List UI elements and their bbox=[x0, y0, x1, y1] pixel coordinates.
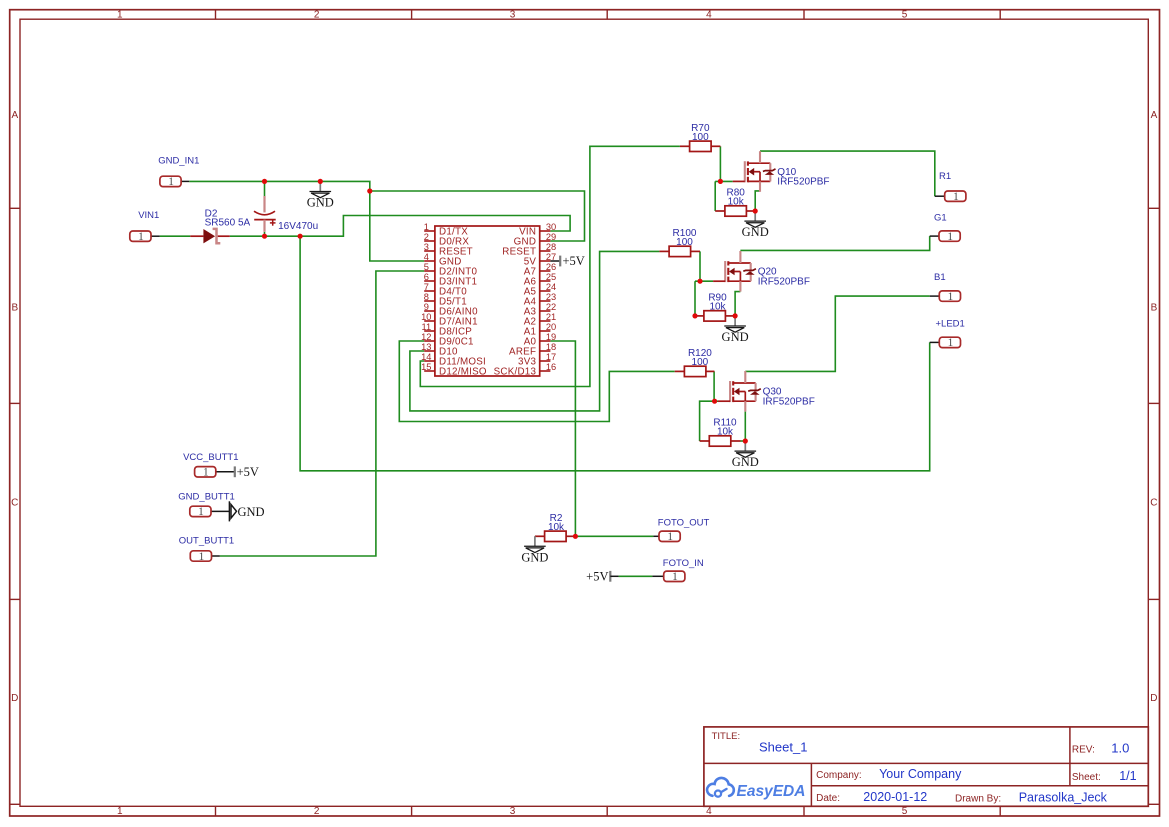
pin 7 D4/T0 bbox=[424, 290, 435, 292]
svg-text:VCC_BUTT1: VCC_BUTT1 bbox=[183, 452, 238, 463]
wire stub G1 port bbox=[930, 235, 939, 237]
junction R90 left node bbox=[692, 313, 697, 318]
title block texts bbox=[712, 731, 1137, 805]
svg-text:5: 5 bbox=[902, 806, 908, 817]
svg-text:Company:: Company: bbox=[816, 770, 862, 781]
wire Q20 gate node down to R90 bbox=[694, 281, 696, 316]
net port FOTO_IN bbox=[663, 558, 704, 583]
wire Q30 gate node down to R110 bbox=[700, 401, 715, 441]
pin 1 D1/TX bbox=[424, 230, 435, 232]
pin 17 3V3 bbox=[540, 360, 551, 362]
diode D2 (SR560 schottky) bbox=[190, 208, 250, 243]
svg-text:GND_BUTT1: GND_BUTT1 bbox=[178, 492, 234, 503]
pin 4 GND bbox=[424, 260, 435, 262]
svg-text:1: 1 bbox=[168, 176, 174, 188]
wire stub LED1 port bbox=[930, 341, 940, 343]
net port VCC_BUTT1 bbox=[183, 452, 238, 479]
net port VIN1 bbox=[130, 210, 160, 243]
svg-text:+5V: +5V bbox=[563, 254, 585, 268]
svg-text:C: C bbox=[11, 498, 18, 509]
svg-text:20: 20 bbox=[546, 322, 556, 332]
pin 18 AREF bbox=[540, 350, 551, 352]
wire capacitor top lead stub bbox=[264, 181, 266, 196]
svg-text:1: 1 bbox=[947, 231, 953, 243]
svg-text:1: 1 bbox=[948, 337, 954, 349]
wire Q20 drain to G1 bbox=[740, 236, 929, 250]
wire capacitor bottom lead stub bbox=[264, 232, 266, 236]
svg-text:2: 2 bbox=[314, 9, 320, 20]
pin 2 D0/RX bbox=[424, 240, 435, 242]
wire Q10 source to R80 right node bbox=[755, 191, 760, 211]
ground symbol GND Q30 bbox=[732, 441, 759, 469]
svg-text:16: 16 bbox=[546, 362, 556, 372]
svg-text:IRF520PBF: IRF520PBF bbox=[758, 276, 810, 287]
resistor R110 bbox=[700, 418, 741, 447]
svg-text:Your Company: Your Company bbox=[879, 767, 962, 781]
svg-text:OUT_BUTT1: OUT_BUTT1 bbox=[179, 535, 234, 546]
svg-text:3: 3 bbox=[510, 9, 516, 20]
pin 9 D6/AIN0 bbox=[424, 310, 435, 312]
wire IC pin13 to R100 bbox=[410, 251, 660, 411]
svg-text:1.0: 1.0 bbox=[1111, 741, 1129, 756]
junction Q20 gate node bbox=[697, 279, 702, 284]
wire stub VIN1 port bbox=[151, 235, 160, 237]
wire FOTO_IN +5V to port bbox=[619, 575, 653, 577]
svg-text:4: 4 bbox=[424, 252, 429, 262]
wire Q20 gate node to gate bbox=[695, 280, 713, 282]
ruler row letters left bbox=[11, 110, 18, 704]
svg-text:SR560 5A: SR560 5A bbox=[205, 218, 251, 229]
wire stub OUT_BUTT1 port bbox=[211, 555, 220, 557]
svg-text:Drawn By:: Drawn By: bbox=[955, 793, 1001, 804]
wire stub GND_BUTT1 to GND flag bbox=[211, 510, 230, 512]
svg-text:6: 6 bbox=[424, 272, 429, 282]
pin 23 A4 bbox=[540, 300, 551, 302]
ruler column numbers top bbox=[117, 9, 908, 20]
svg-text:100: 100 bbox=[676, 237, 693, 248]
wire GND branch to IC pin4 bbox=[370, 191, 424, 261]
svg-text:13: 13 bbox=[421, 342, 431, 352]
svg-text:11: 11 bbox=[421, 322, 431, 332]
svg-text:1: 1 bbox=[953, 191, 959, 203]
wire Q10 gate node down to R80 bbox=[714, 181, 716, 211]
svg-text:1/1: 1/1 bbox=[1119, 769, 1136, 783]
net port R1 bbox=[939, 171, 966, 203]
svg-text:1: 1 bbox=[138, 231, 144, 243]
svg-text:1: 1 bbox=[203, 467, 209, 479]
net port B1 bbox=[934, 272, 961, 303]
svg-text:A: A bbox=[11, 110, 18, 121]
pin 6 D3/INT1 bbox=[424, 280, 435, 282]
pin 20 A1 bbox=[540, 330, 551, 332]
wire IC pin19 A0 down to R2 node bbox=[550, 341, 575, 536]
svg-text:C: C bbox=[1150, 498, 1157, 509]
wire IC pin5 to OUT_BUTT1 bbox=[220, 271, 424, 556]
svg-text:D: D bbox=[1150, 693, 1157, 704]
pin 22 A3 bbox=[540, 310, 551, 312]
svg-text:19: 19 bbox=[546, 332, 556, 342]
ruler column numbers bottom bbox=[117, 806, 908, 817]
wire VIN1 to D2 anode bbox=[160, 235, 191, 237]
pin 10 D7/AIN1 bbox=[424, 320, 435, 322]
power flag +5V at FOTO_IN bbox=[586, 570, 618, 584]
svg-text:GND: GND bbox=[307, 196, 334, 210]
wire stub FOTO_IN port bbox=[652, 575, 663, 577]
pin 8 D5/T1 bbox=[424, 300, 435, 302]
wire R70 to Q10 gate node bbox=[719, 146, 721, 181]
svg-text:1: 1 bbox=[667, 531, 673, 543]
net port FOTO_OUT bbox=[658, 517, 710, 543]
net port OUT_BUTT1 bbox=[179, 535, 234, 562]
svg-text:B1: B1 bbox=[934, 272, 946, 283]
junction node FOTO_OUT / R2 / A0 bbox=[573, 534, 578, 539]
svg-text:SCK/D13: SCK/D13 bbox=[494, 366, 537, 377]
junction Q30 source / R110 / GND bbox=[743, 438, 748, 443]
svg-text:Sheet:: Sheet: bbox=[1072, 772, 1101, 783]
svg-text:GND_IN1: GND_IN1 bbox=[158, 155, 199, 166]
transistor Q1 (IRF520PBF N-MOSFET) bbox=[733, 151, 830, 192]
svg-text:D: D bbox=[11, 693, 18, 704]
svg-text:25: 25 bbox=[546, 272, 556, 282]
ground symbol GND Q20 bbox=[722, 316, 749, 344]
svg-text:26: 26 bbox=[546, 262, 556, 272]
svg-text:3: 3 bbox=[424, 242, 429, 252]
pin 29 GND bbox=[540, 240, 551, 242]
wire Q30 gate node to gate bbox=[715, 400, 718, 402]
wire R2 node to FOTO_OUT bbox=[575, 535, 653, 537]
resistor R2 bbox=[535, 513, 576, 542]
svg-text:1: 1 bbox=[199, 551, 205, 563]
pin 27 5V bbox=[540, 260, 551, 262]
svg-text:Sheet_1: Sheet_1 bbox=[759, 740, 807, 755]
svg-text:B: B bbox=[1151, 303, 1158, 314]
svg-text:EasyEDA: EasyEDA bbox=[737, 783, 806, 800]
svg-text:GND: GND bbox=[742, 225, 769, 239]
svg-text:24: 24 bbox=[546, 282, 556, 292]
svg-text:14: 14 bbox=[421, 352, 431, 362]
svg-text:1: 1 bbox=[948, 291, 954, 303]
svg-text:21: 21 bbox=[546, 312, 556, 322]
pin 21 A2 bbox=[540, 320, 551, 322]
svg-text:2: 2 bbox=[314, 806, 320, 817]
svg-text:28: 28 bbox=[546, 242, 556, 252]
junction Q10 source / R80 / GND bbox=[753, 208, 758, 213]
power flag +5V at IC pin27 bbox=[560, 254, 585, 268]
wire IC pin12 to R120 bbox=[399, 341, 674, 422]
wire R110 right lead to source node bbox=[741, 440, 746, 442]
svg-text:18: 18 bbox=[546, 342, 556, 352]
net port G1 bbox=[934, 213, 960, 243]
svg-text:10k: 10k bbox=[717, 427, 734, 438]
ground symbol GND R2 bbox=[521, 536, 548, 564]
svg-text:VIN1: VIN1 bbox=[138, 210, 159, 221]
svg-text:1: 1 bbox=[117, 9, 123, 20]
svg-text:2: 2 bbox=[424, 232, 429, 242]
svg-text:22: 22 bbox=[546, 302, 556, 312]
net port LED1 bbox=[936, 318, 965, 349]
svg-text:1: 1 bbox=[424, 222, 429, 232]
pin 28 RESET bbox=[540, 250, 551, 252]
wire Q10 drain to R1 bbox=[760, 151, 935, 196]
svg-text:FOTO_IN: FOTO_IN bbox=[663, 558, 704, 569]
resistor R120 bbox=[675, 348, 715, 377]
junction VIN net LED rail branch bbox=[298, 234, 303, 239]
pin 5 D2/INT0 bbox=[424, 270, 435, 272]
wire GND_IN1 horizontal to corner bbox=[189, 181, 584, 241]
wire Q30 drain to B1 bbox=[745, 296, 929, 371]
wire R100 to Q20 gate node bbox=[699, 251, 701, 281]
svg-text:9: 9 bbox=[424, 302, 429, 312]
svg-text:GND: GND bbox=[521, 550, 548, 564]
svg-text:Parasolka_Jeck: Parasolka_Jeck bbox=[1019, 791, 1108, 805]
svg-text:FOTO_OUT: FOTO_OUT bbox=[658, 517, 710, 528]
pin 11 D8/ICP bbox=[424, 330, 435, 332]
wire stub B1 port bbox=[930, 295, 940, 297]
svg-text:Date:: Date: bbox=[816, 793, 840, 804]
svg-text:100: 100 bbox=[692, 132, 709, 143]
pin 26 A7 bbox=[540, 270, 551, 272]
pin 14 D11/MOSI bbox=[424, 360, 435, 362]
svg-text:+5V: +5V bbox=[237, 465, 259, 479]
svg-text:+5V: +5V bbox=[586, 570, 608, 584]
net port GND_IN1 bbox=[158, 155, 199, 188]
svg-text:4: 4 bbox=[706, 806, 712, 817]
svg-text:GND: GND bbox=[732, 455, 759, 469]
svg-text:5: 5 bbox=[902, 9, 908, 20]
EasyEDA logo bbox=[707, 778, 805, 800]
svg-text:17: 17 bbox=[546, 352, 556, 362]
svg-text:30: 30 bbox=[546, 222, 556, 232]
pin 15 D12/MISO bbox=[424, 370, 435, 372]
pin 16 SCK/D13 bbox=[540, 370, 551, 372]
svg-text:IRF520PBF: IRF520PBF bbox=[763, 396, 815, 407]
svg-text:+LED1: +LED1 bbox=[936, 318, 965, 329]
ground symbol GND top rail bbox=[307, 181, 334, 209]
svg-text:23: 23 bbox=[546, 292, 556, 302]
svg-text:GND: GND bbox=[238, 505, 265, 519]
svg-text:15: 15 bbox=[421, 362, 431, 372]
ground symbol GND_BUTT1 flag (rotated) bbox=[229, 501, 264, 521]
wire stub IC pin27 to +5V flag bbox=[550, 260, 559, 262]
transistor Q2 (IRF520PBF N-MOSFET) bbox=[713, 251, 810, 292]
svg-text:A: A bbox=[1151, 110, 1158, 121]
wire Q20 source to R90 right node bbox=[735, 292, 740, 316]
wire Q30 source down to GND node bbox=[744, 412, 746, 441]
power flag +5V at VCC_BUTT1 bbox=[235, 465, 259, 479]
junction GND net at ground symbol bbox=[318, 179, 323, 184]
junction GND net pin4 branch bbox=[367, 188, 372, 193]
svg-text:16V470u: 16V470u bbox=[278, 221, 318, 232]
resistor R80 bbox=[715, 188, 755, 217]
svg-text:4: 4 bbox=[706, 9, 712, 20]
svg-text:TITLE:: TITLE: bbox=[712, 731, 741, 742]
transistor Q3 (IRF520PBF N-MOSFET) bbox=[718, 371, 815, 412]
wire IC pin14 to R70 bbox=[420, 146, 680, 386]
svg-text:12: 12 bbox=[421, 332, 431, 342]
junction Q20 source / R90 / GND bbox=[733, 313, 738, 318]
resistor R90 bbox=[694, 292, 735, 321]
pin 13 D10 bbox=[424, 350, 435, 352]
resistor R70 bbox=[680, 123, 721, 152]
wire VIN rail down-right to +LED1 bbox=[300, 236, 930, 471]
pin 19 A0 bbox=[540, 340, 551, 342]
ruler row letters right bbox=[1150, 110, 1157, 704]
ground symbol GND Q10 bbox=[742, 211, 769, 239]
svg-text:7: 7 bbox=[424, 282, 429, 292]
svg-text:D12/MISO: D12/MISO bbox=[439, 366, 487, 377]
pin 3 RESET bbox=[424, 250, 435, 252]
wire R120 to Q30 gate node bbox=[713, 371, 715, 401]
svg-text:REV:: REV: bbox=[1072, 744, 1095, 755]
svg-text:10k: 10k bbox=[728, 197, 745, 208]
svg-text:1: 1 bbox=[117, 806, 123, 817]
svg-text:R1: R1 bbox=[939, 171, 951, 182]
svg-text:1: 1 bbox=[672, 571, 678, 583]
svg-text:2020-01-12: 2020-01-12 bbox=[863, 790, 927, 804]
junction Q30 gate node bbox=[712, 399, 717, 404]
svg-text:5: 5 bbox=[424, 262, 429, 272]
svg-text:IRF520PBF: IRF520PBF bbox=[777, 177, 829, 188]
pin 12 D9/0C1 bbox=[424, 340, 435, 342]
junction Q10 gate node bbox=[718, 179, 723, 184]
capacitor C1 (16V470u polarized) bbox=[254, 196, 318, 232]
net port GND_BUTT1 bbox=[178, 492, 234, 519]
svg-text:8: 8 bbox=[424, 292, 429, 302]
svg-text:3: 3 bbox=[510, 806, 516, 817]
title block frame bbox=[704, 727, 1148, 806]
svg-text:10: 10 bbox=[421, 312, 431, 322]
wire stub GND_IN1 port bbox=[181, 180, 189, 182]
wire stub R1 port bbox=[935, 195, 945, 197]
svg-text:100: 100 bbox=[692, 357, 709, 368]
svg-text:1: 1 bbox=[198, 506, 204, 518]
svg-text:GND: GND bbox=[722, 330, 749, 344]
junction GND net at capacitor top bbox=[262, 179, 267, 184]
svg-text:G1: G1 bbox=[934, 213, 947, 224]
wire stub VCC_BUTT1 to +5V flag bbox=[215, 471, 234, 473]
pin 24 A5 bbox=[540, 290, 551, 292]
svg-text:27: 27 bbox=[546, 252, 556, 262]
wire stub FOTO_OUT port bbox=[653, 535, 659, 537]
svg-text:B: B bbox=[11, 303, 18, 314]
wire Q10 gate node to gate bbox=[715, 180, 733, 182]
svg-text:10k: 10k bbox=[548, 522, 565, 533]
svg-text:29: 29 bbox=[546, 232, 556, 242]
IC U1 (MCU DIP-30 body) bbox=[421, 222, 556, 377]
pin 30 VIN bbox=[540, 230, 551, 232]
junction VIN net at capacitor bottom bbox=[262, 234, 267, 239]
svg-text:10k: 10k bbox=[709, 301, 726, 312]
pin 25 A6 bbox=[540, 280, 551, 282]
wire D2 cathode to IC pin30 VIN bbox=[230, 216, 570, 237]
resistor R100 bbox=[659, 228, 700, 257]
